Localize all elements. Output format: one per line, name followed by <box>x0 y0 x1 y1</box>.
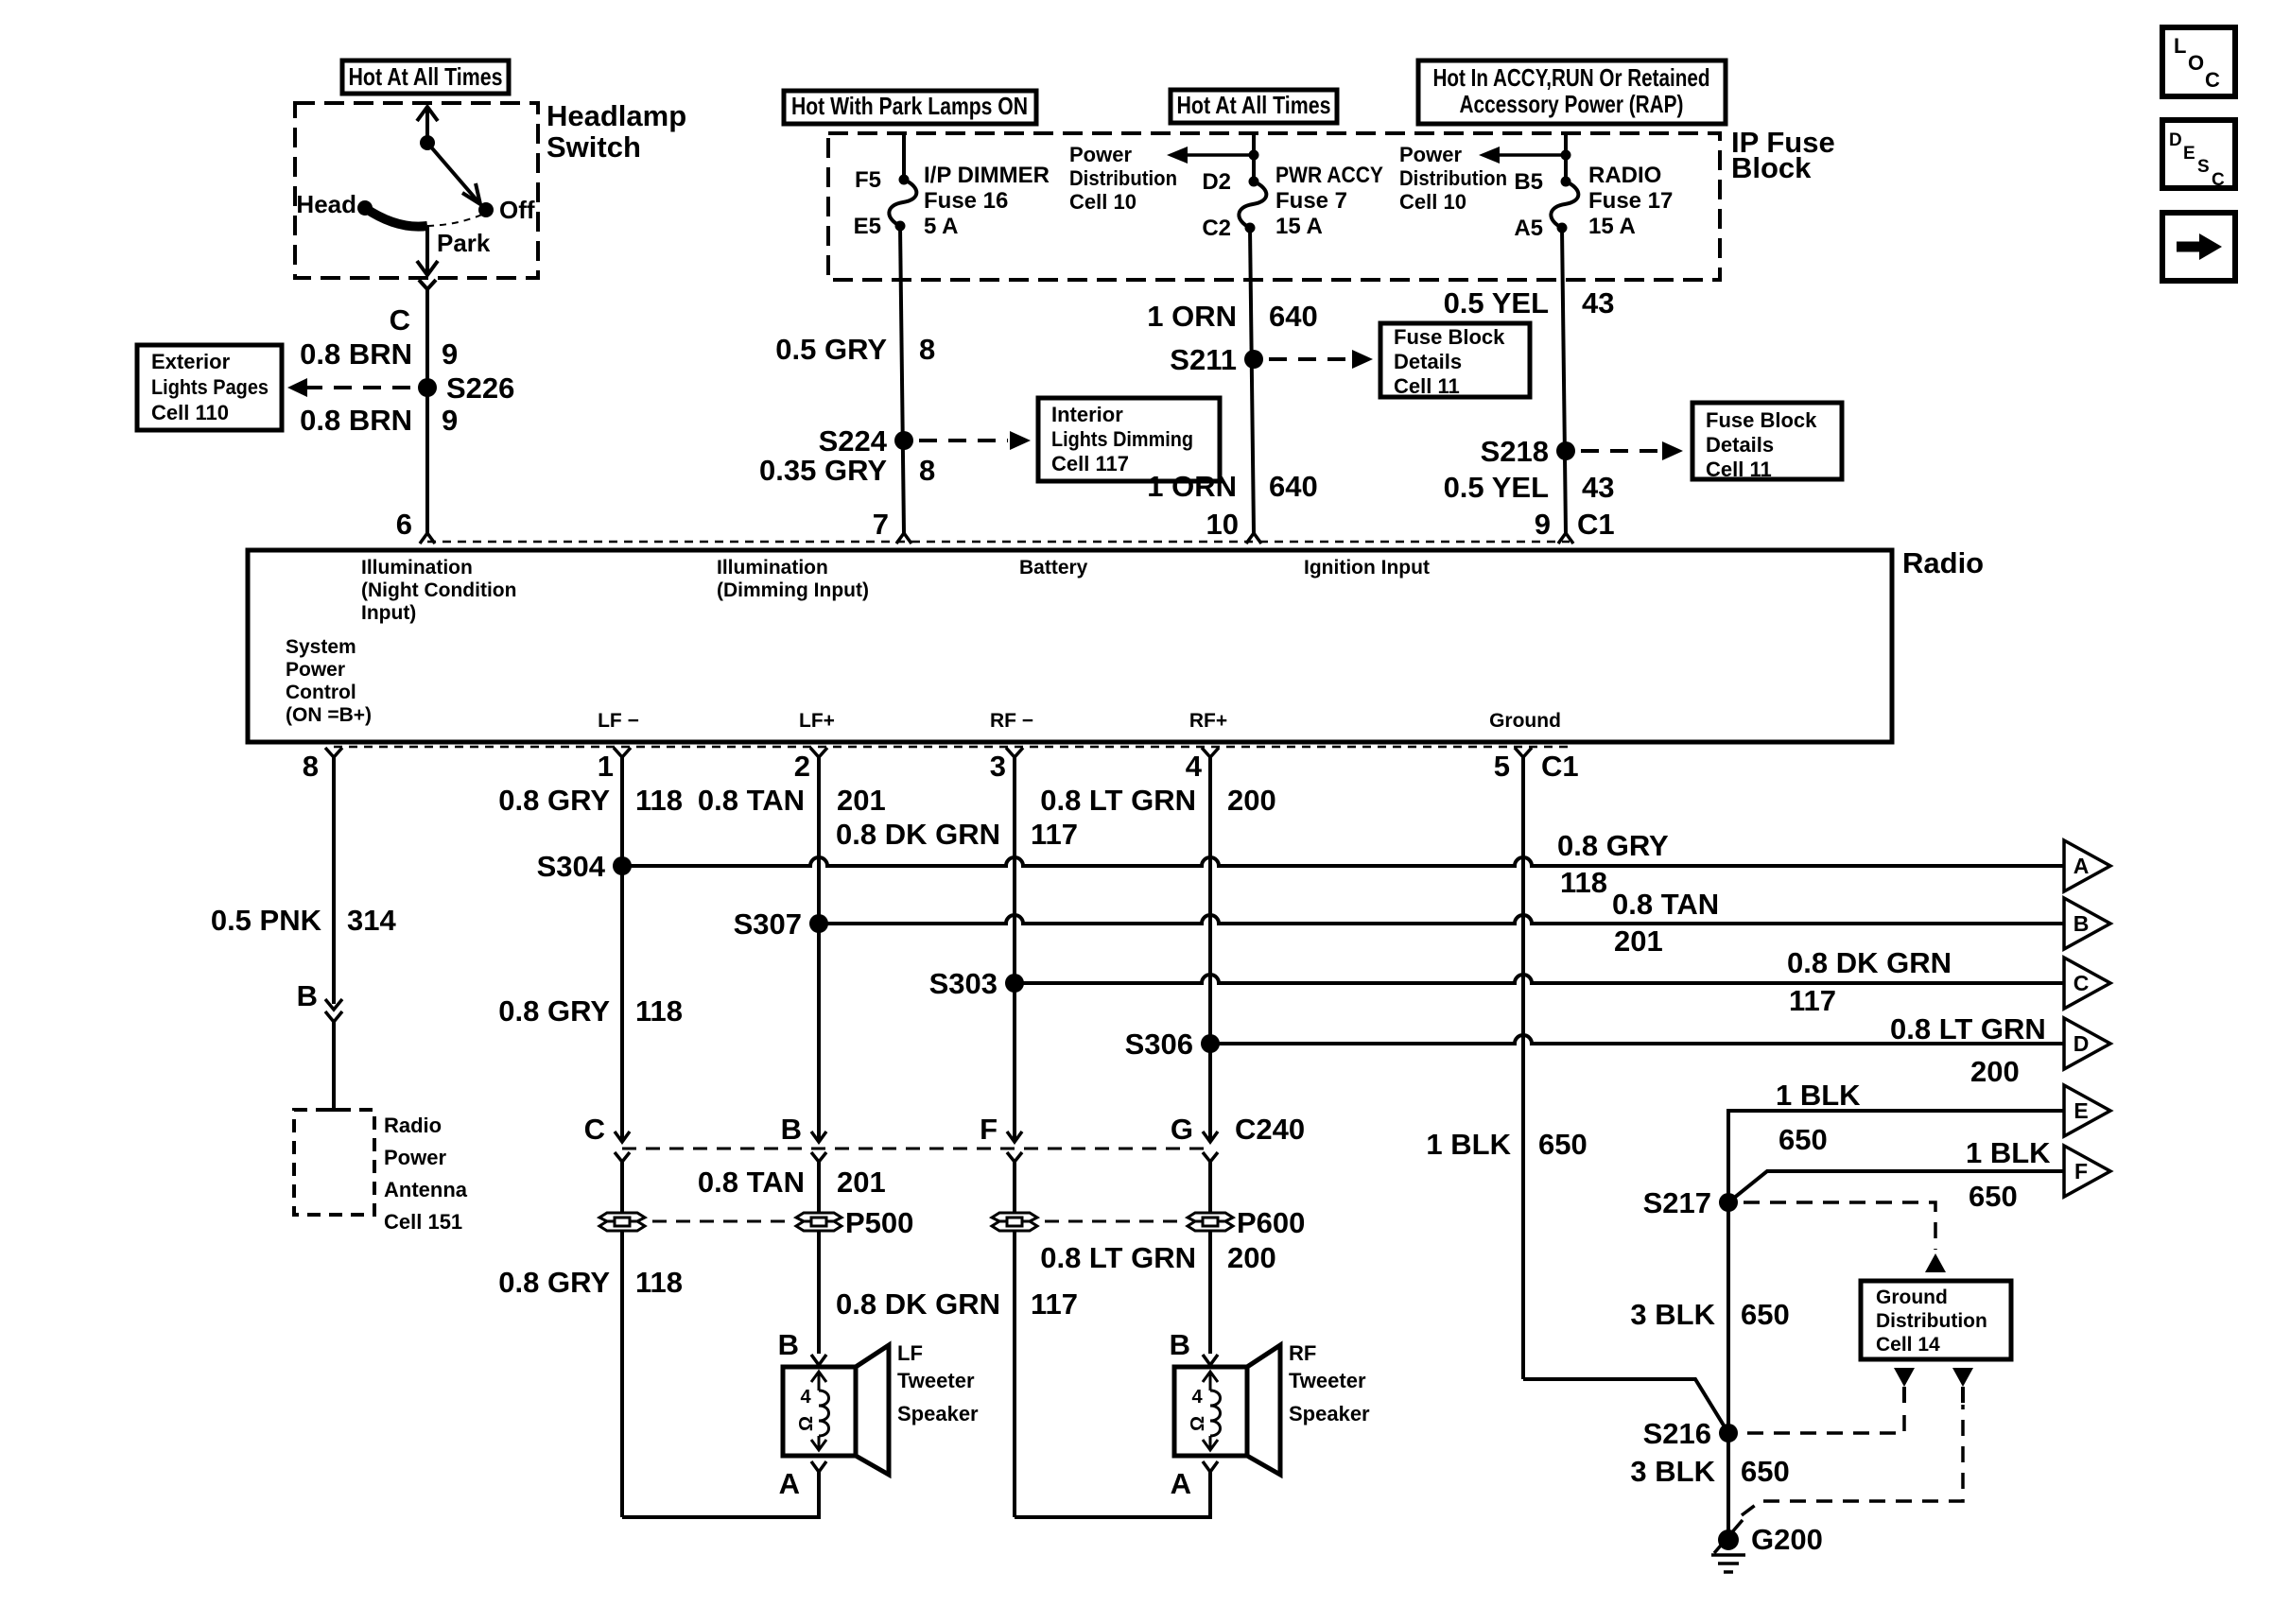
splice S303 <box>929 967 1024 1000</box>
svg-text:0.8 DK GRN: 0.8 DK GRN <box>836 818 1000 851</box>
svg-text:B: B <box>781 1113 802 1146</box>
header box Hot In ACCY RUN Or Retained Accessory Power <box>1418 60 1726 124</box>
svg-text:Lights Pages: Lights Pages <box>151 375 269 399</box>
dashed reference arrow S226 to Exterior Lights Pages <box>287 378 418 397</box>
svg-text:G: G <box>1171 1113 1193 1146</box>
svg-text:Park: Park <box>437 229 491 257</box>
wire S303 to connector C with hops <box>1015 975 2064 983</box>
connector C240 pin C <box>584 1113 630 1172</box>
svg-text:Interior: Interior <box>1051 403 1123 426</box>
dashed reference arrow S224 to Interior Lights Dimming <box>919 431 1031 450</box>
wire label 0.5 YEL 43 (upper) <box>1444 286 1615 320</box>
wire label 0.5 GRY 8 (upper) <box>775 333 935 366</box>
svg-text:RF −: RF − <box>990 710 1033 732</box>
connector pin B to antenna with double chevron <box>297 979 342 1022</box>
connector C240 pin F <box>980 1113 1022 1172</box>
svg-text:9: 9 <box>1535 508 1551 541</box>
wire radio pin 1 LF minus down <box>620 768 624 1139</box>
svg-text:200: 200 <box>1227 784 1276 817</box>
wire headlamp switch to S226 <box>425 307 429 533</box>
svg-text:RADIO: RADIO <box>1588 163 1661 188</box>
svg-text:P600: P600 <box>1237 1206 1305 1239</box>
RF speaker pin B <box>1170 1328 1218 1365</box>
connector triangle B <box>2064 898 2110 949</box>
component dashed box Radio Power Antenna <box>294 1110 374 1215</box>
legend box DESC <box>2162 120 2235 190</box>
svg-text:201: 201 <box>1614 924 1663 958</box>
svg-text:8: 8 <box>919 454 935 487</box>
wire radio pin 8 to antenna connector <box>332 768 336 1004</box>
wire S217 to connector F <box>1728 1171 2064 1202</box>
svg-text:1 ORN: 1 ORN <box>1147 470 1237 503</box>
wire label 0.8 TAN 201 (below C240) <box>698 1166 886 1199</box>
radio pin 3 <box>990 748 1023 783</box>
svg-text:D: D <box>2169 130 2182 150</box>
wire label 1 BLK 650 (F line) <box>1966 1136 2051 1213</box>
label LF Tweeter Speaker <box>897 1341 979 1425</box>
label Headlamp Switch <box>547 99 686 164</box>
svg-text:Illumination: Illumination <box>717 557 828 579</box>
svg-text:F: F <box>980 1113 998 1146</box>
svg-text:B: B <box>2073 911 2090 936</box>
svg-text:Cell 10: Cell 10 <box>1399 190 1466 214</box>
svg-text:D2: D2 <box>1202 169 1231 195</box>
svg-text:Ignition Input: Ignition Input <box>1304 557 1430 579</box>
svg-text:LF+: LF+ <box>799 710 835 732</box>
wire label 1 BLK 650 (E line) <box>1776 1079 1861 1156</box>
svg-text:B5: B5 <box>1514 169 1543 195</box>
svg-text:9: 9 <box>442 337 458 371</box>
svg-text:S: S <box>2197 157 2210 177</box>
splice S304 <box>537 850 632 883</box>
svg-text:Fuse 7: Fuse 7 <box>1275 188 1347 214</box>
radio pin label Illumination Night Condition Input <box>361 557 516 624</box>
svg-text:7: 7 <box>873 508 889 541</box>
svg-text:Distribution: Distribution <box>1399 166 1507 190</box>
dashed reference S216 to ground distribution <box>1747 1405 1904 1433</box>
radio pin label Illumination Dimming Input <box>717 557 869 601</box>
radio pin 4 <box>1186 748 1219 783</box>
RF speaker impedance label 4 ohm <box>1188 1387 1208 1431</box>
svg-text:Headlamp: Headlamp <box>547 99 686 132</box>
svg-text:Hot At All Times: Hot At All Times <box>349 62 503 91</box>
svg-text:43: 43 <box>1582 471 1614 504</box>
svg-text:Exterior: Exterior <box>151 350 231 373</box>
svg-text:C2: C2 <box>1202 216 1231 241</box>
svg-text:L: L <box>2174 34 2186 58</box>
connector triangle D <box>2064 1018 2110 1069</box>
LF speaker pin B <box>778 1328 826 1365</box>
svg-text:S303: S303 <box>929 967 998 1000</box>
radio component box <box>248 550 1892 742</box>
svg-text:Power: Power <box>384 1146 446 1169</box>
switch common contact <box>420 135 435 150</box>
svg-text:(Night Condition: (Night Condition <box>361 579 516 601</box>
svg-text:43: 43 <box>1582 286 1614 320</box>
svg-text:1 BLK: 1 BLK <box>1966 1136 2051 1169</box>
svg-text:0.5 YEL: 0.5 YEL <box>1444 286 1549 320</box>
power distribution feed arrow (battery) <box>1167 147 1259 164</box>
wire P500 to LF loop <box>620 1231 624 1517</box>
LF tweeter speaker body <box>783 1345 889 1475</box>
svg-text:C: C <box>584 1113 605 1146</box>
wire fuse block top to fuse 17 <box>1564 133 1568 181</box>
svg-text:C1: C1 <box>1577 508 1615 541</box>
wire label 0.8 BRN 9 (upper) <box>300 337 458 371</box>
svg-text:Ω: Ω <box>1188 1416 1208 1431</box>
grommet P600 right half <box>1188 1206 1305 1239</box>
fuse F17 element <box>1551 181 1578 228</box>
IP fuse block dashed box <box>828 133 1720 280</box>
svg-text:201: 201 <box>837 784 886 817</box>
wire C240 B to P500 grommet <box>817 1172 821 1213</box>
ground G200 <box>1711 1520 1823 1572</box>
svg-text:0.8 LT GRN: 0.8 LT GRN <box>1040 1241 1196 1274</box>
svg-text:Tweeter: Tweeter <box>1289 1369 1366 1392</box>
svg-text:Fuse 17: Fuse 17 <box>1588 188 1673 214</box>
wire label 0.8 GRY 118 (below P500) <box>498 1266 683 1299</box>
radio pin label System Power Control <box>286 636 372 726</box>
svg-text:0.8 BRN: 0.8 BRN <box>300 337 412 371</box>
svg-text:RF+: RF+ <box>1189 710 1227 732</box>
RF tweeter speaker body <box>1174 1345 1280 1475</box>
grommet P500 left half <box>599 1213 645 1231</box>
fuse F7 terminal C2 <box>1245 223 1256 233</box>
header box Hot At All Times (headlamp) <box>342 60 509 94</box>
svg-text:S226: S226 <box>446 371 514 405</box>
wire label 3 BLK 650 (S217-S216) <box>1630 1298 1789 1331</box>
svg-text:C240: C240 <box>1235 1113 1305 1146</box>
svg-text:Cell 151: Cell 151 <box>384 1210 462 1234</box>
svg-text:8: 8 <box>303 750 319 783</box>
svg-text:I/P DIMMER: I/P DIMMER <box>924 163 1050 188</box>
radio pin 7 <box>873 508 911 544</box>
svg-text:Switch: Switch <box>547 130 641 164</box>
svg-text:C: C <box>2205 68 2220 92</box>
label Radio Power Antenna Cell 151 <box>384 1114 468 1234</box>
svg-text:0.8 BRN: 0.8 BRN <box>300 404 412 437</box>
wire S306 to connector D with hop <box>1210 1035 2064 1044</box>
wire ground run to S216 <box>1523 1379 1728 1433</box>
svg-text:C: C <box>2212 170 2225 190</box>
wire RF speaker A return loop <box>1015 1472 1210 1517</box>
svg-text:4: 4 <box>1191 1387 1203 1408</box>
svg-text:Cell 110: Cell 110 <box>151 401 229 424</box>
svg-text:3 BLK: 3 BLK <box>1630 1455 1715 1488</box>
svg-text:200: 200 <box>1970 1055 2020 1088</box>
wire C240 G to P600 grommet <box>1208 1172 1212 1213</box>
svg-text:8: 8 <box>919 333 935 366</box>
svg-text:Hot In ACCY,RUN Or Retained: Hot In ACCY,RUN Or Retained <box>1433 63 1710 92</box>
reference box Exterior Lights Pages Cell 110 <box>137 345 282 430</box>
radio pin 2 <box>794 748 827 783</box>
wire S307 to connector B with hops <box>819 915 2064 924</box>
svg-text:B: B <box>1170 1328 1190 1361</box>
svg-text:S304: S304 <box>537 850 606 883</box>
wire fuse 17 to radio pin 9 <box>1562 228 1566 533</box>
splice S217 <box>1643 1186 1738 1219</box>
svg-text:0.8 TAN: 0.8 TAN <box>1612 888 1719 921</box>
grommet P500 dashed link <box>652 1220 789 1223</box>
radio pin 5 and C1 <box>1494 748 1579 783</box>
svg-text:0.8 GRY: 0.8 GRY <box>498 1266 610 1299</box>
svg-text:E: E <box>2183 144 2195 164</box>
wire label 0.8 GRY 118 (pin1 upper) <box>498 784 683 817</box>
grommet P600 dashed link <box>1045 1220 1180 1223</box>
svg-text:0.8 DK GRN: 0.8 DK GRN <box>1787 946 1952 979</box>
radio pin 8 <box>303 748 342 783</box>
wire S304 to connector A with hops <box>622 857 2064 866</box>
svg-text:3: 3 <box>990 750 1006 783</box>
svg-text:640: 640 <box>1269 300 1318 333</box>
svg-text:117: 117 <box>1031 1287 1078 1321</box>
wire radio pin 3 RF minus down <box>1013 768 1016 1139</box>
svg-text:0.5 YEL: 0.5 YEL <box>1444 471 1549 504</box>
radio pin 6 <box>396 508 435 544</box>
legend box arrow <box>2162 213 2235 281</box>
svg-text:Hot At All Times: Hot At All Times <box>1177 91 1331 119</box>
svg-text:S211: S211 <box>1170 343 1237 376</box>
RF speaker pin A <box>1171 1461 1218 1500</box>
wire label 0.8 DK GRN 117 (pin3 upper) <box>836 818 1078 851</box>
fuse F7 element <box>1239 181 1266 228</box>
wire fuse 16 to radio pin 7 <box>900 226 904 533</box>
fuse F17 terminal B5 <box>1561 177 1571 187</box>
svg-text:0.8 GRY: 0.8 GRY <box>1557 829 1669 862</box>
svg-text:0.5 GRY: 0.5 GRY <box>775 333 887 366</box>
svg-text:D: D <box>2073 1031 2090 1056</box>
svg-text:640: 640 <box>1269 470 1318 503</box>
ground distribution arrow to G200 <box>1952 1368 1973 1403</box>
svg-text:118: 118 <box>635 994 683 1028</box>
wire label 0.8 LT GRN 200 (pin4 upper) <box>1040 784 1276 817</box>
svg-text:Lights Dimming: Lights Dimming <box>1051 427 1193 451</box>
svg-text:6: 6 <box>396 508 412 541</box>
svg-text:E5: E5 <box>854 214 881 239</box>
LF speaker pin A <box>779 1461 826 1500</box>
legend box LOC <box>2162 27 2235 96</box>
svg-text:4: 4 <box>800 1387 811 1408</box>
svg-text:S218: S218 <box>1481 435 1549 468</box>
svg-text:15 A: 15 A <box>1588 214 1636 239</box>
svg-text:Distribution: Distribution <box>1069 166 1177 190</box>
wire fuse 7 to radio pin 10 <box>1250 228 1254 533</box>
svg-text:Distribution: Distribution <box>1876 1310 1987 1332</box>
svg-text:0.8 GRY: 0.8 GRY <box>498 784 610 817</box>
svg-text:1 BLK: 1 BLK <box>1776 1079 1861 1112</box>
reference text Power Distribution Cell 10 (ignition) <box>1399 143 1507 214</box>
svg-text:F5: F5 <box>855 167 881 193</box>
connector pin C of headlamp switch <box>390 280 436 337</box>
reference box Fuse Block Details Cell 11 (S218) <box>1692 403 1842 481</box>
splice S216 <box>1643 1417 1738 1450</box>
svg-text:C: C <box>2073 971 2090 995</box>
connector C240 pin G <box>1171 1113 1305 1172</box>
headlamp switch dashed box <box>295 103 538 278</box>
svg-text:117: 117 <box>1789 984 1836 1017</box>
switch output wire with down arrow <box>417 226 438 275</box>
splice S224 <box>819 424 913 458</box>
svg-text:Cell 11: Cell 11 <box>1394 374 1460 398</box>
reference box Ground Distribution Cell 14 <box>1861 1281 2011 1359</box>
dashed arc Park to Off <box>427 214 484 226</box>
wire radio pin 4 RF plus down <box>1208 768 1212 1139</box>
svg-text:Input): Input) <box>361 602 416 624</box>
wire fuse block top to fuse 16 <box>902 133 906 180</box>
svg-text:0.5 PNK: 0.5 PNK <box>211 904 322 937</box>
header box Hot With Park Lamps ON <box>784 91 1036 124</box>
contact Head <box>296 190 373 218</box>
svg-text:Radio: Radio <box>384 1114 442 1137</box>
connector C240 dashed line <box>622 1148 1211 1150</box>
svg-text:Power: Power <box>1069 143 1132 166</box>
svg-text:Accessory Power (RAP): Accessory Power (RAP) <box>1460 90 1684 118</box>
svg-text:Cell 11: Cell 11 <box>1706 458 1772 481</box>
svg-text:650: 650 <box>1741 1298 1790 1331</box>
wire label 0.35 GRY 8 (lower) <box>759 454 935 487</box>
svg-text:Tweeter: Tweeter <box>897 1369 975 1392</box>
dashed reference S217 to ground distribution <box>1744 1202 1946 1272</box>
svg-text:0.35 GRY: 0.35 GRY <box>759 454 887 487</box>
svg-text:LF: LF <box>897 1341 923 1365</box>
svg-text:201: 201 <box>837 1166 886 1199</box>
svg-text:B: B <box>778 1328 799 1361</box>
wire label 3 BLK 650 (S216-G200) <box>1630 1455 1789 1488</box>
wire label 0.8 BRN 9 (lower) <box>300 404 458 437</box>
wire label 0.8 DK GRN 117 (C line) <box>1787 946 1952 1017</box>
wire LF speaker A return loop <box>622 1472 819 1517</box>
power distribution feed arrow (ignition) <box>1479 147 1571 164</box>
svg-text:Details: Details <box>1394 350 1462 373</box>
wire label 0.8 TAN 201 (pin2 upper) <box>698 784 886 817</box>
svg-text:3 BLK: 3 BLK <box>1630 1298 1715 1331</box>
wire P600 to RF speaker loop <box>1013 1231 1016 1517</box>
svg-text:0.8 GRY: 0.8 GRY <box>498 994 610 1028</box>
wire S216 to G200 <box>1726 1433 1730 1540</box>
connector triangle E <box>2064 1085 2110 1136</box>
svg-text:0.8 TAN: 0.8 TAN <box>698 784 805 817</box>
LF speaker coil with arrows <box>811 1372 829 1450</box>
dashed reference arrow S218 to Fuse Block Details <box>1581 441 1683 460</box>
label IP Fuse Block <box>1731 126 1835 184</box>
svg-text:5: 5 <box>1494 750 1510 783</box>
grommet P600 left half <box>992 1213 1037 1231</box>
contact Off <box>478 196 535 224</box>
svg-text:(Dimming Input): (Dimming Input) <box>717 579 869 601</box>
svg-text:(ON =B+): (ON =B+) <box>286 704 372 726</box>
svg-text:650: 650 <box>1969 1180 2018 1213</box>
wire label 0.8 GRY 118 (A line) <box>1557 829 1669 899</box>
svg-text:Head: Head <box>296 190 356 218</box>
svg-text:1: 1 <box>598 750 614 783</box>
radio top connector dashed line C1 <box>427 541 1570 544</box>
svg-text:2: 2 <box>794 750 810 783</box>
radio pin 10 <box>1206 508 1261 544</box>
wire label 0.5 PNK 314 <box>211 904 397 937</box>
wire label 0.5 YEL 43 (lower) <box>1444 471 1615 504</box>
svg-text:Radio: Radio <box>1902 546 1984 579</box>
ground distribution arrow to S216 <box>1894 1368 1915 1403</box>
svg-text:A: A <box>1171 1467 1191 1500</box>
svg-text:Illumination: Illumination <box>361 557 473 579</box>
svg-text:F: F <box>2074 1159 2088 1183</box>
wire C240 F to P600 grommet <box>1013 1172 1016 1213</box>
fuse F16 terminal F5 <box>899 175 910 185</box>
svg-text:E: E <box>2073 1098 2088 1123</box>
splice S307 <box>734 907 828 941</box>
svg-text:Off: Off <box>499 196 535 224</box>
svg-text:Hot With Park Lamps ON: Hot With Park Lamps ON <box>791 92 1028 120</box>
svg-text:650: 650 <box>1778 1123 1828 1156</box>
svg-text:0.8 DK GRN: 0.8 DK GRN <box>836 1287 1000 1321</box>
svg-text:10: 10 <box>1206 508 1239 541</box>
svg-text:Fuse Block: Fuse Block <box>1394 325 1505 349</box>
svg-text:S217: S217 <box>1643 1186 1711 1219</box>
svg-text:Cell 14: Cell 14 <box>1876 1334 1940 1356</box>
svg-text:A: A <box>779 1467 800 1500</box>
wire fuse block top to fuse 7 <box>1252 133 1256 181</box>
svg-text:314: 314 <box>347 904 396 937</box>
svg-text:P500: P500 <box>845 1206 913 1239</box>
svg-text:Fuse 16: Fuse 16 <box>924 188 1008 214</box>
fuse F16 terminal E5 <box>895 221 906 232</box>
svg-text:117: 117 <box>1031 818 1078 851</box>
svg-text:A: A <box>2073 854 2090 878</box>
reference box Fuse Block Details Cell 11 (S211) <box>1380 323 1530 398</box>
splice S306 <box>1125 1028 1220 1061</box>
radio bottom connector dashed line C1 <box>334 746 1570 749</box>
svg-text:O: O <box>2188 51 2204 75</box>
switch blade to Off with arrowhead <box>427 143 480 204</box>
wire label 1 ORN 640 (upper) <box>1147 300 1317 333</box>
svg-text:Ground: Ground <box>1876 1287 1948 1308</box>
LF speaker impedance label 4 ohm <box>796 1387 817 1431</box>
svg-text:S216: S216 <box>1643 1417 1711 1450</box>
svg-text:118: 118 <box>1560 866 1607 899</box>
svg-text:Details: Details <box>1706 433 1774 457</box>
svg-text:PWR ACCY: PWR ACCY <box>1275 163 1383 188</box>
fuse 17 value label <box>1588 163 1673 239</box>
svg-text:15 A: 15 A <box>1275 214 1323 239</box>
svg-text:Fuse Block: Fuse Block <box>1706 408 1817 432</box>
wire radio pin 5 ground down <box>1521 768 1525 1379</box>
switch feed wire with up arrow <box>417 107 438 143</box>
wire P600 to RF speaker B <box>1208 1231 1212 1354</box>
wire P500 to LF speaker B <box>817 1231 821 1354</box>
radio pin 9 and C1 <box>1535 508 1615 544</box>
svg-text:Cell 10: Cell 10 <box>1069 190 1136 214</box>
svg-text:Power: Power <box>286 659 345 681</box>
svg-text:0.8 TAN: 0.8 TAN <box>698 1166 805 1199</box>
wire antenna connector to radio power antenna box <box>332 1022 336 1110</box>
wire label 1 ORN 640 (lower) <box>1147 470 1317 503</box>
svg-text:C1: C1 <box>1541 750 1579 783</box>
grommet P500 right half <box>796 1206 913 1239</box>
svg-text:RF: RF <box>1289 1341 1316 1365</box>
splice S211 <box>1170 343 1263 376</box>
fuse F7 terminal D2 <box>1249 177 1259 187</box>
svg-text:Antenna: Antenna <box>384 1178 468 1201</box>
svg-text:Battery: Battery <box>1019 557 1088 579</box>
svg-text:0.8 LT GRN: 0.8 LT GRN <box>1890 1012 2046 1045</box>
svg-text:G200: G200 <box>1751 1523 1823 1556</box>
wire label 0.8 GRY 118 (pin1 lower) <box>498 994 683 1028</box>
wire label 0.8 DK GRN 117 (below P600) <box>836 1287 1078 1321</box>
connector C240 pin B <box>781 1113 826 1172</box>
svg-text:650: 650 <box>1538 1128 1588 1161</box>
wire S217 to connector E <box>1728 1111 2064 1202</box>
wire label 0.8 TAN 201 (B line) <box>1612 888 1719 958</box>
